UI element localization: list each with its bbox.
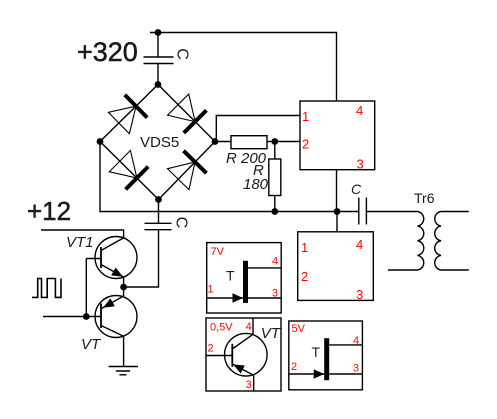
svg-text:5V: 5V [292, 323, 306, 335]
svg-text:2: 2 [291, 361, 297, 373]
svg-text:3: 3 [272, 288, 278, 300]
svg-text:3: 3 [357, 157, 364, 172]
svg-text:C: C [351, 181, 362, 197]
svg-text:0,5V: 0,5V [210, 322, 233, 334]
svg-text:4: 4 [353, 335, 359, 347]
svg-text:3: 3 [356, 287, 363, 302]
svg-text:4: 4 [272, 256, 278, 268]
svg-text:C: C [174, 48, 191, 60]
svg-text:T: T [226, 268, 235, 284]
svg-text:2: 2 [302, 137, 309, 152]
svg-text:VT: VT [81, 336, 102, 353]
svg-text:1: 1 [301, 240, 308, 255]
svg-text:1: 1 [302, 109, 309, 124]
svg-text:VT: VT [261, 325, 282, 342]
svg-text:180: 180 [243, 176, 269, 193]
svg-text:VDS5: VDS5 [140, 134, 179, 151]
svg-text:4: 4 [356, 103, 363, 118]
svg-text:+12: +12 [27, 196, 71, 226]
svg-text:4: 4 [246, 321, 252, 333]
svg-text:7V: 7V [211, 246, 225, 258]
svg-text:Tr6: Tr6 [414, 190, 435, 206]
svg-text:VT1: VT1 [66, 234, 94, 251]
svg-text:1: 1 [208, 284, 214, 296]
svg-text:+320: +320 [77, 37, 138, 67]
svg-text:2: 2 [208, 343, 214, 355]
svg-text:2: 2 [301, 269, 308, 284]
svg-text:T: T [312, 344, 321, 360]
svg-text:3: 3 [353, 363, 359, 375]
svg-text:C: C [173, 217, 190, 229]
svg-text:4: 4 [356, 237, 363, 252]
svg-text:3: 3 [246, 379, 252, 391]
